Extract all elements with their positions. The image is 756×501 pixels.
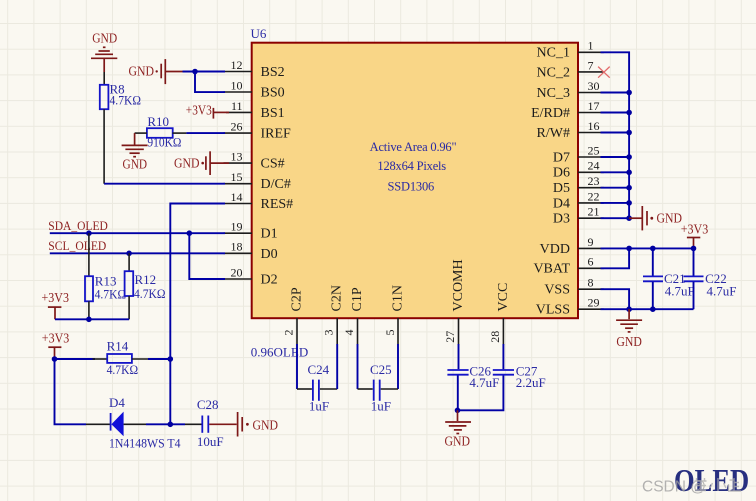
junction VDD/VBAT xyxy=(626,246,632,252)
pin 25 D7 xyxy=(553,143,604,165)
wire SDA_OLED to pin 19 D1 xyxy=(50,232,225,234)
wire D6 to bus xyxy=(601,170,632,176)
pin 4 C1P xyxy=(342,287,365,344)
svg-text:IREF: IREF xyxy=(261,127,292,142)
svg-text:23: 23 xyxy=(588,174,600,188)
net label SCL_OLED xyxy=(48,238,106,253)
svg-text:4.7KΩ: 4.7KΩ xyxy=(107,362,139,377)
svg-text:C1N: C1N xyxy=(390,285,405,311)
ground GND below R10 earth symbol xyxy=(122,145,148,172)
svg-text:7: 7 xyxy=(588,58,594,72)
svg-text:NC_1: NC_1 xyxy=(537,46,570,61)
junction VLSS/C21 xyxy=(650,306,656,312)
svg-text:BS0: BS0 xyxy=(261,86,285,101)
svg-text:C1P: C1P xyxy=(350,287,365,311)
svg-text:0.96OLED: 0.96OLED xyxy=(251,344,308,359)
junction VDD/C21 xyxy=(650,246,656,252)
wire GND to R8 xyxy=(103,72,105,85)
pin 13 CS# xyxy=(224,150,285,172)
wire R14 to RES# net xyxy=(132,358,170,360)
wire VBAT to VDD rail xyxy=(601,248,630,268)
svg-text:C2N: C2N xyxy=(330,285,345,311)
svg-text:4.7KΩ: 4.7KΩ xyxy=(95,286,127,301)
label 128x64 Pixels xyxy=(377,159,446,173)
svg-text:17: 17 xyxy=(588,99,600,113)
junction R13 bottom xyxy=(86,317,92,323)
svg-text:D4: D4 xyxy=(553,196,570,211)
pin 21 D3 xyxy=(553,205,604,227)
svg-text:VDD: VDD xyxy=(540,242,570,257)
pin 11 BS1 xyxy=(226,99,285,121)
pin 22 D4 xyxy=(553,189,604,211)
svg-text:1: 1 xyxy=(588,39,594,53)
power port GND at pin 13 xyxy=(174,151,229,175)
label 0.96OLED xyxy=(251,344,308,359)
wire ground rail to C27 xyxy=(458,376,504,411)
capacitor C26 xyxy=(447,363,499,390)
svg-text:2.2uF: 2.2uF xyxy=(516,375,546,390)
pin 5 C1N xyxy=(383,285,405,344)
junction +3V3/R14/D4 xyxy=(52,356,58,362)
svg-text:+3V3: +3V3 xyxy=(42,291,70,306)
pin 24 D6 xyxy=(553,159,604,181)
svg-text:D7: D7 xyxy=(553,150,570,165)
wire RES# pin 14 vertical xyxy=(170,204,225,425)
svg-text:1N4148WS T4: 1N4148WS T4 xyxy=(109,435,181,450)
svg-text:C25: C25 xyxy=(370,362,392,377)
svg-text:9: 9 xyxy=(588,235,594,249)
wire C24 to pin 3 xyxy=(320,344,337,389)
pin 2 C2P xyxy=(282,287,305,344)
pin 29 VLSS xyxy=(536,296,604,318)
svg-text:D6: D6 xyxy=(553,166,570,181)
wire VDD rail xyxy=(601,247,694,249)
svg-text:SSD1306: SSD1306 xyxy=(388,180,435,194)
svg-text:VSS: VSS xyxy=(544,283,570,298)
pin 23 D5 xyxy=(553,174,604,196)
no-ERC marker pin 7 xyxy=(598,67,610,78)
svg-text:R/W#: R/W# xyxy=(537,126,570,141)
svg-text:5: 5 xyxy=(383,330,397,336)
svg-text:CS#: CS# xyxy=(261,157,285,172)
wire GND to BS2 xyxy=(183,71,226,73)
wire R10 right to IREF pin 26 xyxy=(173,132,226,134)
svg-text:RES#: RES# xyxy=(261,197,294,212)
junction SCL/R12 xyxy=(126,251,132,257)
wire R/W# to bus xyxy=(601,130,632,136)
svg-text:R10: R10 xyxy=(147,114,169,129)
svg-text:26: 26 xyxy=(231,120,243,134)
svg-text:GND: GND xyxy=(174,157,200,172)
svg-text:12: 12 xyxy=(231,58,243,72)
resistor R12 xyxy=(125,253,166,319)
power port +3V3 at R14 xyxy=(42,331,70,359)
wire +3V3 to R14 xyxy=(55,358,108,360)
svg-text:4.7uF: 4.7uF xyxy=(469,375,499,390)
title OLED xyxy=(674,464,749,499)
pin 15 D/C# xyxy=(224,170,291,192)
pin 3 C2N xyxy=(322,285,345,344)
pin 28 VCC xyxy=(488,283,511,345)
power port GND at D3 bus xyxy=(629,206,682,230)
svg-text:128x64 Pixels: 128x64 Pixels xyxy=(377,159,446,173)
diode D4 1N4148WS xyxy=(109,395,181,451)
svg-text:GND: GND xyxy=(657,212,683,227)
svg-text:D2: D2 xyxy=(261,273,278,288)
designator U6 xyxy=(251,26,267,41)
wire R8 to D/C# net xyxy=(104,109,225,184)
wire pin 28 to C27 xyxy=(502,344,504,369)
svg-text:NC_3: NC_3 xyxy=(537,86,570,101)
svg-text:6: 6 xyxy=(588,255,594,269)
svg-text:C2P: C2P xyxy=(290,287,305,311)
junction D4/RES#/C28 xyxy=(168,422,174,428)
wire D7 to bus xyxy=(601,154,632,160)
svg-text:4.7uF: 4.7uF xyxy=(665,283,695,298)
net label SDA_OLED xyxy=(48,218,108,233)
svg-text:GND: GND xyxy=(129,65,155,80)
junction SDA/R13 xyxy=(86,230,92,236)
power port GND at C28 xyxy=(209,412,278,437)
wire GND to BS0 xyxy=(195,72,225,93)
pin 30 NC_3 xyxy=(537,79,604,101)
watermark CSDN xyxy=(642,478,741,496)
svg-text:29: 29 xyxy=(588,296,600,310)
wire NC bus vertical xyxy=(601,52,630,218)
svg-text:D3: D3 xyxy=(553,212,570,227)
junction C26/C27/GND xyxy=(455,408,461,414)
ground GND right earth symbol xyxy=(616,309,642,350)
pin 7 NC_2 xyxy=(537,58,604,80)
svg-text:22: 22 xyxy=(588,189,600,203)
junction VLSS/VSS/GND xyxy=(626,306,632,312)
capacitor C28 xyxy=(197,397,224,449)
pin 18 D0 xyxy=(224,240,278,262)
wire SDA branch to pin 20 D2 xyxy=(189,233,225,279)
svg-text:C28: C28 xyxy=(197,397,219,412)
wire C25 to pin 5 xyxy=(381,344,398,389)
wire R10 left to ground xyxy=(135,133,147,145)
op-amp U6 SSD1306 OLED controller body xyxy=(252,43,578,319)
pin 14 RES# xyxy=(224,190,294,212)
svg-text:GND: GND xyxy=(616,335,642,350)
svg-text:C24: C24 xyxy=(308,362,330,377)
svg-text:14: 14 xyxy=(231,190,243,204)
svg-text:D5: D5 xyxy=(553,181,570,196)
resistor R8 xyxy=(100,82,141,110)
capacitor C22 xyxy=(684,248,737,309)
svg-text:10uF: 10uF xyxy=(197,434,224,449)
svg-text:E/RD#: E/RD# xyxy=(531,106,570,121)
svg-text:D1: D1 xyxy=(261,227,278,242)
svg-text:1uF: 1uF xyxy=(371,398,391,413)
pin 26 IREF xyxy=(224,120,292,142)
svg-text:NC_2: NC_2 xyxy=(537,65,570,80)
wire D4 to bus xyxy=(601,200,632,206)
svg-text:11: 11 xyxy=(231,99,243,113)
svg-text:16: 16 xyxy=(588,119,600,133)
ground GND top-left earth symbol xyxy=(91,31,117,72)
svg-text:21: 21 xyxy=(588,205,600,219)
svg-text:25: 25 xyxy=(588,143,600,157)
svg-text:U6: U6 xyxy=(251,26,267,41)
svg-text:+3V3: +3V3 xyxy=(42,331,70,346)
pin 1 NC_1 xyxy=(537,39,604,61)
svg-text:GND: GND xyxy=(92,31,117,46)
wire +3V3 rail to R13 R12 xyxy=(55,318,129,320)
svg-text:R14: R14 xyxy=(107,338,129,353)
pin 20 D2 xyxy=(224,265,278,287)
svg-text:+3V3: +3V3 xyxy=(186,104,212,119)
svg-text:+3V3: +3V3 xyxy=(681,223,709,238)
svg-text:VLSS: VLSS xyxy=(536,303,570,318)
svg-text:Active Area 0.96": Active Area 0.96" xyxy=(370,140,457,154)
wire NC_3 to bus xyxy=(601,90,632,96)
svg-text:30: 30 xyxy=(588,79,600,93)
wire C26 to ground rail xyxy=(457,376,459,411)
wire pin 4 to C25 xyxy=(358,344,373,389)
svg-text:2: 2 xyxy=(282,330,296,336)
power port +3V3 at pin 11 xyxy=(186,104,229,119)
svg-text:28: 28 xyxy=(488,331,502,343)
capacitor C24 xyxy=(308,362,330,413)
svg-text:VCOMH: VCOMH xyxy=(451,259,466,311)
svg-text:VBAT: VBAT xyxy=(533,262,570,277)
pin 12 BS2 xyxy=(224,58,285,80)
svg-text:4.7uF: 4.7uF xyxy=(707,283,737,298)
junction SDA/D2 branch xyxy=(187,230,193,236)
svg-text:BS1: BS1 xyxy=(261,106,285,121)
svg-text:15: 15 xyxy=(231,170,243,184)
pin 16 R/W# xyxy=(537,119,604,141)
wire D4 cathode to C28 xyxy=(124,423,202,425)
wire pin 2 to C24 xyxy=(297,344,312,389)
svg-text:19: 19 xyxy=(231,220,243,234)
resistor R10 xyxy=(147,114,182,149)
power port +3V3 at VDD xyxy=(681,223,709,249)
svg-text:VCC: VCC xyxy=(496,283,511,312)
svg-text:SCL_OLED: SCL_OLED xyxy=(48,238,106,253)
svg-text:D0: D0 xyxy=(261,247,278,262)
wire D3 to bus xyxy=(601,215,632,221)
capacitor C25 xyxy=(370,362,392,413)
junction at GND/BS2/BS0 xyxy=(192,69,198,75)
wire VSS down to VLSS rail xyxy=(601,289,630,309)
svg-text:18: 18 xyxy=(231,240,243,254)
junction VDD/+3V3/C22 xyxy=(691,246,697,252)
power port +3V3 pull-up rail xyxy=(42,291,70,320)
svg-text:1uF: 1uF xyxy=(309,398,329,413)
pin 27 VCOMH xyxy=(443,259,466,344)
wire SCL_OLED to pin 18 D0 xyxy=(50,252,225,254)
resistor R13 xyxy=(85,233,126,319)
ground GND below C26 earth symbol xyxy=(445,410,471,449)
svg-text:BS2: BS2 xyxy=(261,65,285,80)
svg-text:3: 3 xyxy=(322,330,336,336)
wire pin 27 to C26 xyxy=(458,344,460,369)
wire D5 to bus xyxy=(601,185,632,191)
power port GND at pin 12 xyxy=(129,59,183,84)
label Active Area 0.96" xyxy=(370,140,457,154)
wire +3V3 down to D4 anode xyxy=(55,359,111,424)
wire VLSS rail xyxy=(601,308,694,310)
svg-text:D/C#: D/C# xyxy=(261,177,291,192)
resistor R14 xyxy=(107,338,139,377)
svg-text:27: 27 xyxy=(443,331,457,343)
svg-text:D4: D4 xyxy=(109,395,125,410)
svg-text:GND: GND xyxy=(445,435,471,450)
pin 17 E/RD# xyxy=(531,99,604,121)
svg-text:GND: GND xyxy=(123,158,148,173)
svg-text:13: 13 xyxy=(231,150,243,164)
pin 19 D1 xyxy=(224,220,278,242)
svg-text:4.7KΩ: 4.7KΩ xyxy=(110,92,142,107)
junction R14/RES# xyxy=(168,356,174,362)
svg-text:GND: GND xyxy=(253,419,279,434)
svg-text:4: 4 xyxy=(342,330,356,336)
svg-text:SDA_OLED: SDA_OLED xyxy=(48,218,108,233)
label SSD1306 xyxy=(388,180,435,194)
wire E/RD# to bus xyxy=(601,110,632,116)
pin 8 VSS xyxy=(544,276,603,298)
svg-text:8: 8 xyxy=(588,276,594,290)
pin 9 VDD xyxy=(540,235,604,257)
svg-text:24: 24 xyxy=(588,159,600,173)
capacitor C21 xyxy=(643,248,695,309)
svg-text:10: 10 xyxy=(231,79,243,93)
pin 10 BS0 xyxy=(224,79,285,101)
pin 6 VBAT xyxy=(533,255,603,277)
capacitor C27 xyxy=(493,363,546,390)
svg-text:20: 20 xyxy=(231,265,243,279)
svg-text:910KΩ: 910KΩ xyxy=(147,134,181,149)
svg-text:4.7KΩ: 4.7KΩ xyxy=(134,286,166,301)
